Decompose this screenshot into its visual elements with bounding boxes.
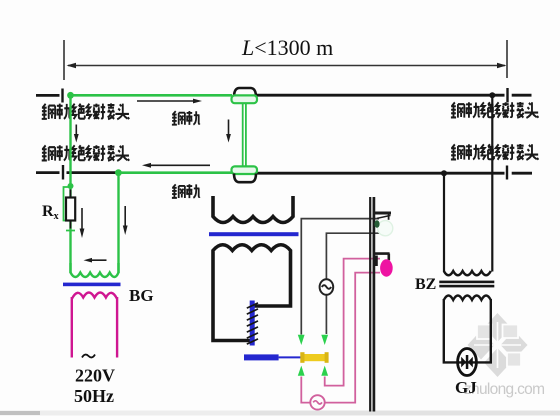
arrow left (above BG coil): [84, 258, 107, 263]
bottom rail mid-left segment: [67, 171, 118, 174]
wheel axle (double green line): [242, 103, 244, 167]
insulated joint tick top-right: [506, 88, 508, 103]
transformer T1 primary winding (top): [213, 196, 293, 223]
dimension line L<1300m: [67, 63, 507, 68]
insulated joint tick bottom-right: [506, 166, 508, 180]
wheel bottom black rim: [234, 174, 256, 183]
wire armature to contact: [279, 356, 301, 358]
bottom rail left segment: [36, 171, 60, 174]
transformer T1 core bar (blue): [209, 232, 299, 236]
AC source U2 (pink): [310, 395, 324, 409]
relay armature bar (blue): [244, 354, 279, 360]
junction node bottom-right rail: [441, 170, 447, 176]
AC tilde under BG: [82, 355, 95, 358]
wheel bottom green contact bar: [232, 166, 258, 174]
svg-text:L<1300 m: L<1300 m: [241, 35, 333, 60]
node green bottom junction: [115, 169, 122, 176]
contact bottom-left (green): [298, 366, 305, 376]
transformer BZ secondary coil: [444, 296, 491, 301]
wire green Rx bypass loop: [64, 187, 76, 231]
svg-text:220V: 220V: [75, 366, 115, 386]
signal lamp 2 (lit, magenta): [380, 259, 393, 276]
signal pole (double line): [369, 197, 371, 412]
arrow right (current direction top): [137, 99, 202, 104]
transformer T1 secondary winding (bottom): [213, 245, 291, 341]
label rail/joint left row2: [42, 145, 129, 161]
svg-text:GJ: GJ: [455, 378, 477, 397]
insulated joint tick top-left: [61, 89, 63, 103]
junction node top-right rail: [489, 92, 495, 98]
label rail/joint left row1: [42, 103, 129, 119]
contact bar (yellow): [303, 354, 326, 361]
resistor Rx: [66, 190, 75, 229]
wheel top green contact bar: [232, 95, 258, 103]
insulated joint tick bottom-left: [62, 165, 64, 180]
dimension extension line right: [506, 40, 508, 78]
arrow left (current direction bottom rail): [142, 163, 210, 168]
label rail/joint right row1: [451, 102, 538, 118]
wire thin from pole to left contact: [301, 219, 379, 335]
wire BZ right drop: [491, 95, 493, 271]
wire BZ secondary loop: [444, 299, 491, 362]
svg-text:BG: BG: [129, 286, 154, 305]
wire BZ left drop: [443, 173, 445, 271]
transformer BG core bar: [63, 283, 121, 287]
pole bracket 2: [375, 254, 390, 261]
label rail bottom middle: [172, 184, 200, 198]
contact top-right (green): [321, 335, 328, 345]
wire green bottom rail overlay: [118, 171, 232, 174]
wire pink: bottom-right contact to lamp (inner): [325, 259, 380, 386]
transformer BG green primary coil: [71, 263, 119, 277]
contact top-left (green): [298, 335, 305, 345]
arrow down (near wheel): [226, 120, 231, 143]
wire green below Rx to BG: [69, 221, 71, 274]
watermark logo: [468, 313, 528, 377]
wire pink: bottom-left contact to AC source 2: [301, 377, 310, 403]
arrow down (left of Rx): [80, 208, 85, 238]
wire pink: AC source 2 to lamp (outer): [325, 273, 380, 403]
wire green top rail overlay: [71, 94, 233, 97]
label rail/joint right row2: [451, 144, 538, 160]
bottom rail far-right segment: [512, 172, 532, 175]
label rail top middle: [172, 111, 200, 125]
signal lamp 1 (off, pale green): [378, 221, 393, 236]
bottom gray band: [0, 411, 560, 416]
relay GJ: [458, 349, 477, 376]
bottom rail right segment: [256, 172, 505, 175]
contact bottom-right (green): [321, 366, 328, 376]
top rail right segment: [256, 94, 505, 97]
wire thin from pole through AC source to right contact: [326, 233, 380, 334]
relay coil (blue with hatches): [247, 301, 258, 346]
AC source U1: [320, 279, 334, 295]
dimension extension line left: [63, 40, 65, 80]
pole bracket 1: [375, 212, 391, 215]
transformer BG secondary coil (magenta): [72, 293, 117, 358]
arrow down (left joints): [74, 125, 79, 143]
top rail left segment: [36, 94, 60, 97]
svg-text:BZ: BZ: [415, 276, 436, 293]
node green above Rx: [68, 183, 74, 189]
svg-text:50Hz: 50Hz: [74, 386, 114, 406]
transformer BZ core bars: [439, 281, 494, 284]
wire green right vertical to BG: [117, 173, 119, 273]
arrow down (right of Rx): [123, 206, 128, 235]
wire green left vertical: [69, 95, 71, 197]
top rail far-right segment: [512, 94, 532, 97]
transformer BZ primary coil: [444, 271, 491, 275]
wheel axle shunt: top black rim: [234, 88, 256, 97]
node green top-left junction: [67, 92, 74, 99]
